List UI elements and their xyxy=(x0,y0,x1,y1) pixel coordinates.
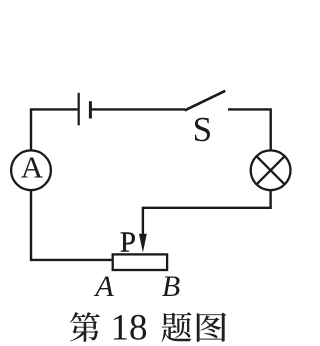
wire xyxy=(143,190,271,238)
caption: 第 xyxy=(70,312,100,342)
wire xyxy=(92,108,185,110)
switch S blade xyxy=(185,91,226,111)
slider arrow P xyxy=(139,234,147,253)
battery cell: short plate xyxy=(89,101,92,118)
wire xyxy=(228,109,271,150)
svg-text:S: S xyxy=(193,110,212,149)
svg-text:P: P xyxy=(120,227,136,259)
caption: 题 xyxy=(161,312,191,342)
svg-text:B: B xyxy=(162,270,180,303)
wire xyxy=(31,109,78,150)
wire xyxy=(31,190,112,260)
svg-text:A: A xyxy=(21,150,44,185)
caption: 图 xyxy=(197,313,226,342)
svg-text:A: A xyxy=(93,270,114,303)
lamp L1 xyxy=(251,150,291,190)
svg-text:18: 18 xyxy=(111,308,148,346)
rheostat R1 body xyxy=(113,254,167,270)
ammeter A1 xyxy=(11,150,51,190)
battery cell: long plate xyxy=(78,93,80,126)
